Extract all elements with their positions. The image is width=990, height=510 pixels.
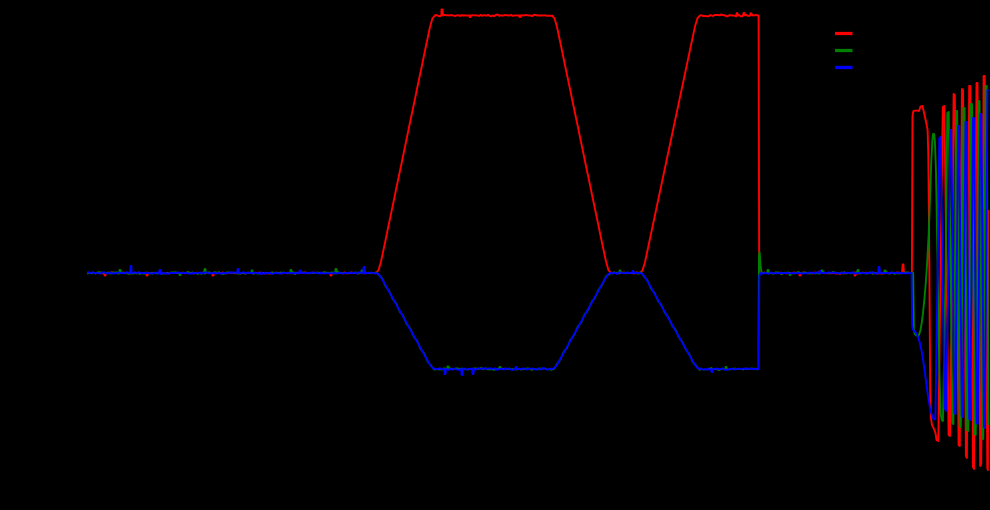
series 2: green trace [87, 86, 989, 439]
legend swatch green [835, 49, 853, 52]
legend swatch blue [835, 66, 853, 69]
series 3: blue trace [87, 90, 989, 428]
legend swatch red [835, 32, 853, 35]
